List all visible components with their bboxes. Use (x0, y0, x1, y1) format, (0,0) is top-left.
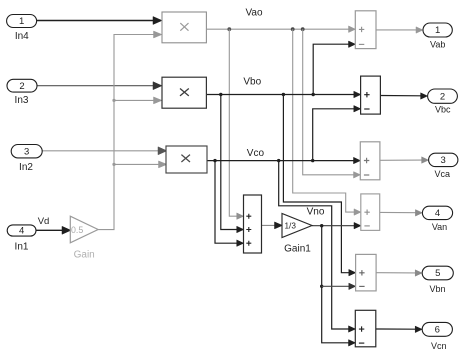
svg-text:Gain1: Gain1 (284, 244, 311, 255)
svg-text:2: 2 (440, 91, 445, 102)
svg-text:Vd: Vd (38, 216, 50, 227)
svg-text:1: 1 (19, 16, 24, 27)
svg-text:In4: In4 (15, 31, 29, 42)
svg-text:Vca: Vca (434, 169, 450, 179)
svg-text:In1: In1 (15, 242, 29, 253)
svg-text:Gain: Gain (74, 250, 95, 261)
svg-text:3: 3 (441, 155, 446, 166)
svg-text:Vbo: Vbo (243, 77, 261, 88)
svg-text:Vcn: Vcn (431, 341, 447, 351)
svg-text:4: 4 (19, 226, 24, 237)
svg-text:1: 1 (435, 25, 440, 36)
svg-text:In3: In3 (15, 95, 29, 106)
svg-text:Van: Van (432, 222, 447, 232)
svg-text:Vbc: Vbc (435, 104, 451, 114)
svg-text:1/3: 1/3 (285, 222, 297, 231)
svg-text:Vno: Vno (307, 206, 325, 217)
svg-text:In2: In2 (19, 162, 33, 173)
svg-text:4: 4 (435, 208, 440, 219)
svg-text:6: 6 (435, 325, 440, 336)
svg-text:3: 3 (24, 146, 29, 157)
svg-text:2: 2 (19, 81, 24, 92)
svg-text:5: 5 (435, 268, 440, 279)
svg-text:Vao: Vao (245, 7, 262, 18)
svg-text:Vco: Vco (247, 148, 265, 159)
svg-text:Vbn: Vbn (429, 284, 445, 294)
svg-text:Vab: Vab (430, 40, 445, 50)
svg-text:0.5: 0.5 (71, 225, 83, 235)
